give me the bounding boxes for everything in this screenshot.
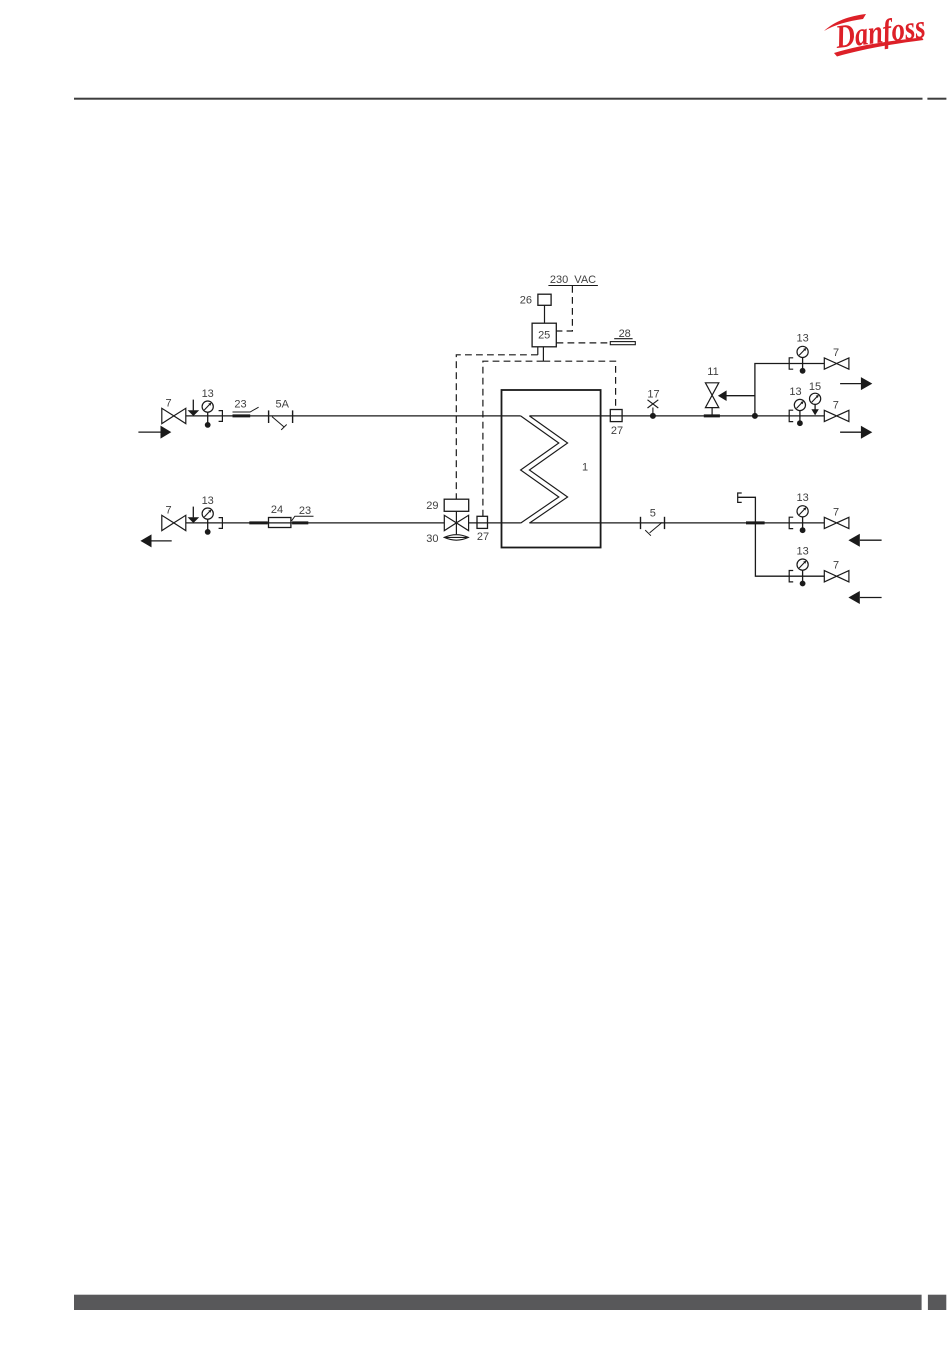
Danfoss logo xyxy=(824,9,927,56)
label 15 xyxy=(809,381,821,393)
safety valve 11 xyxy=(704,383,755,416)
svg-text:1: 1 xyxy=(582,462,588,474)
valve 7 return lower xyxy=(824,571,849,582)
svg-text:7: 7 xyxy=(833,560,839,572)
label 23 xyxy=(234,399,246,411)
sensor 23 leader xyxy=(292,516,314,521)
box 26 safety thermostat xyxy=(538,294,551,305)
svg-text:7: 7 xyxy=(165,505,171,517)
svg-text:13: 13 xyxy=(202,388,214,400)
label 13 xyxy=(202,495,214,507)
wire dashed run to sensor 27 return xyxy=(483,361,544,516)
sensor 28 label xyxy=(619,328,631,340)
label 1 xyxy=(582,462,588,474)
branch top: bracket xyxy=(789,358,793,369)
check valve 5 xyxy=(641,517,665,536)
branch return lower: bracket xyxy=(789,571,793,582)
sensor 28 underline xyxy=(614,338,632,340)
wire return pipe segments xyxy=(186,522,444,524)
wire top pipe left segment xyxy=(186,415,521,417)
flow arrow out main xyxy=(840,426,872,439)
flow arrow in return lower xyxy=(848,591,881,604)
label 13 xyxy=(789,386,801,398)
svg-text:13: 13 xyxy=(202,495,214,507)
svg-text:13: 13 xyxy=(796,545,808,557)
svg-text:7: 7 xyxy=(165,398,171,410)
svg-text:26: 26 xyxy=(520,294,532,306)
svg-text:28: 28 xyxy=(619,328,631,340)
fitting bracket bottom left xyxy=(219,518,223,529)
branch return upper: bracket xyxy=(789,517,793,528)
seal pot 30 xyxy=(444,535,468,541)
wire stub 25 bottom left xyxy=(537,347,539,355)
label 13 xyxy=(796,545,808,557)
header rule xyxy=(74,98,946,100)
label 11 xyxy=(707,366,718,378)
wire riser to reference point xyxy=(738,497,755,523)
gauge 13 return upper xyxy=(797,506,808,533)
heat exchanger coil xyxy=(521,416,568,523)
label 7 xyxy=(833,560,839,572)
valve 7 bottom left xyxy=(162,515,186,530)
label 26 xyxy=(520,294,532,306)
branch return lower: wire xyxy=(789,575,824,577)
orifice 24 body xyxy=(269,518,291,528)
svg-text:7: 7 xyxy=(833,347,839,359)
wire dashed 230VAC drop xyxy=(557,286,573,331)
label 29 xyxy=(426,500,438,512)
svg-text:13: 13 xyxy=(796,333,808,345)
svg-text:230 VAC: 230 VAC xyxy=(550,274,596,286)
fitting drain arrow top left xyxy=(188,400,200,416)
label 7 xyxy=(165,398,171,410)
gauge 13 flow right xyxy=(794,399,805,426)
label 25 xyxy=(538,330,550,342)
flow arrow outlet bottom left xyxy=(140,534,171,547)
sensor 27 flow box xyxy=(610,410,622,422)
fitting bracket reference xyxy=(738,493,742,502)
wire 26 to 25 xyxy=(544,305,546,323)
wire drop to lower branch xyxy=(755,523,789,576)
sensor 23 flow pocket xyxy=(233,414,251,417)
wire riser to top branch xyxy=(755,364,789,416)
sensor 23 return pocket xyxy=(292,521,308,524)
wire stub 25 bottom right xyxy=(542,347,544,361)
strainer 5A xyxy=(269,410,293,430)
flow arrow in return upper xyxy=(848,534,881,547)
valve 7 return upper xyxy=(824,517,849,528)
label 13 xyxy=(796,492,808,504)
label 5A xyxy=(275,398,289,410)
wire dashed run to sensor 27 flow xyxy=(543,361,615,409)
svg-text:13: 13 xyxy=(796,492,808,504)
label 27 xyxy=(611,425,623,437)
valve 7 branch top xyxy=(824,358,849,369)
footer bar xyxy=(74,1295,946,1310)
heat exchanger 1 body xyxy=(502,390,601,548)
node 230 VAC underline xyxy=(548,285,598,287)
label 7 xyxy=(833,347,839,359)
fitting drain arrow bottom left xyxy=(188,507,200,523)
gauge 13 bottom left xyxy=(202,508,213,535)
gauge 13 return lower xyxy=(797,559,808,586)
main flow right: bracket xyxy=(789,410,793,421)
wire dashed run to valve actuator 29 xyxy=(456,355,538,499)
svg-text:29: 29 xyxy=(426,500,438,512)
label 13 xyxy=(202,388,214,400)
label 7 xyxy=(833,400,839,412)
branch top: wire xyxy=(789,363,824,365)
svg-text:17: 17 xyxy=(647,388,659,400)
label 27 xyxy=(477,531,489,543)
gauge 13 branch top xyxy=(797,346,808,373)
label 5 xyxy=(650,508,656,520)
svg-text:24: 24 xyxy=(271,504,283,516)
svg-text:27: 27 xyxy=(477,531,489,543)
sensor 23 leader xyxy=(233,407,259,412)
svg-text:5A: 5A xyxy=(275,398,289,410)
svg-text:23: 23 xyxy=(234,399,246,411)
sensor 28 body xyxy=(610,342,635,345)
orifice 24 inlet bar xyxy=(249,521,267,524)
sensor 27 return box xyxy=(477,516,488,528)
valve 7 top left xyxy=(162,408,186,423)
label 17 xyxy=(647,388,659,400)
label 23 xyxy=(299,505,311,517)
svg-text:25: 25 xyxy=(538,330,550,342)
vent 17 xyxy=(648,400,659,419)
svg-text:13: 13 xyxy=(789,386,801,398)
node 230 VAC label xyxy=(550,274,596,286)
svg-text:11: 11 xyxy=(707,366,718,378)
label 13 xyxy=(796,333,808,345)
flow arrow out branch top xyxy=(840,377,872,390)
label 30 xyxy=(426,533,438,545)
label 24 xyxy=(271,504,283,516)
svg-text:27: 27 xyxy=(611,425,623,437)
gauge 15 thermometer xyxy=(810,393,821,415)
svg-text:15: 15 xyxy=(809,381,821,393)
gauge 13 top left xyxy=(202,401,213,428)
actuator 29 xyxy=(444,499,469,511)
junction return tee xyxy=(746,521,765,524)
controller U25 box xyxy=(532,323,556,347)
svg-text:30: 30 xyxy=(426,533,438,545)
svg-text:Danfoss: Danfoss xyxy=(833,9,928,56)
junction flow branch xyxy=(752,413,758,419)
label 7 xyxy=(165,505,171,517)
svg-text:7: 7 xyxy=(833,506,839,518)
valve 29 body xyxy=(444,511,468,534)
svg-text:7: 7 xyxy=(833,400,839,412)
label 7 xyxy=(833,506,839,518)
svg-text:23: 23 xyxy=(299,505,311,517)
valve 7 flow right xyxy=(824,410,849,421)
svg-text:5: 5 xyxy=(650,508,656,520)
fitting bracket top left xyxy=(219,411,223,422)
wire top pipe right segment xyxy=(529,415,824,417)
wire dashed 25 to 28 xyxy=(557,342,611,344)
flow arrow inlet top xyxy=(138,426,171,439)
